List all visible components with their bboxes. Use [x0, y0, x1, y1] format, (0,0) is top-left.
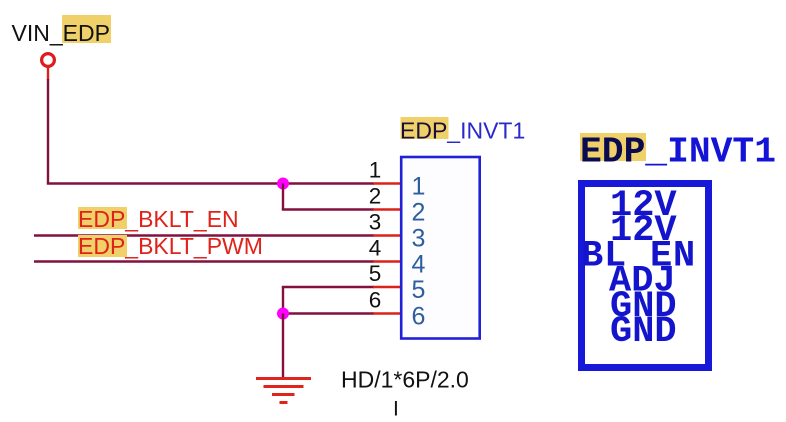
wire horizontal pin 5 [282, 286, 374, 288]
power port pin stub [47, 68, 49, 80]
power port circle VIN_EDP [42, 54, 55, 67]
svg-text:4: 4 [412, 251, 426, 279]
svg-text:5: 5 [369, 261, 382, 286]
svg-text:HD/1*6P/2.0: HD/1*6P/2.0 [341, 367, 469, 393]
svg-text:4: 4 [369, 235, 382, 260]
table title highlight "EDP" [580, 133, 646, 161]
svg-text:2: 2 [369, 183, 382, 208]
svg-text:_INVT1: _INVT1 [644, 132, 776, 173]
connector title highlight "EDP" [401, 117, 449, 139]
svg-text:1: 1 [369, 157, 382, 182]
wire vertical pin5 to pin6 row [282, 287, 284, 314]
svg-text:1: 1 [412, 173, 426, 201]
svg-text:EDP: EDP [580, 132, 645, 173]
svg-text:_INVT1: _INVT1 [446, 118, 525, 144]
svg-text:3: 3 [412, 225, 426, 253]
connector body EDP_INVT1 [401, 157, 480, 339]
svg-text:GND: GND [610, 311, 677, 353]
svg-text:EDP_BKLT_EN: EDP_BKLT_EN [78, 206, 239, 232]
net highlight VIN_EDP "EDP" [62, 15, 111, 43]
svg-text:2: 2 [412, 199, 426, 227]
wire vertical to ground [282, 314, 284, 379]
wire horizontal to pin 2 [282, 208, 374, 210]
wire horizontal to pin 1 [47, 182, 374, 184]
svg-text:6: 6 [412, 303, 426, 331]
svg-text:3: 3 [369, 209, 382, 234]
table box EDP_INVT1 [582, 184, 709, 368]
junction node at pin1 branch [277, 178, 289, 190]
svg-text:6: 6 [369, 287, 382, 312]
net highlight EDP_BKLT_PWM "EDP" [78, 235, 127, 257]
wire vertical junction to pin2 row [282, 184, 284, 210]
wire vertical from VIN_EDP [47, 79, 49, 184]
net highlight EDP_BKLT_EN "EDP" [78, 207, 127, 229]
svg-text:5: 5 [412, 276, 426, 304]
svg-text:EDP_BKLT_PWM: EDP_BKLT_PWM [78, 233, 263, 259]
svg-text:I: I [393, 398, 399, 421]
wire to pin 4 [34, 260, 374, 262]
wire to pin 3 [34, 234, 374, 236]
svg-text:VIN_EDP: VIN_EDP [12, 20, 110, 46]
svg-text:EDP: EDP [400, 118, 447, 144]
ground symbol [256, 379, 311, 403]
connector pin stubs (red pins 1-6) [373, 184, 400, 314]
junction node at ground branch [277, 308, 289, 320]
wire horizontal pin 6 [283, 312, 374, 314]
